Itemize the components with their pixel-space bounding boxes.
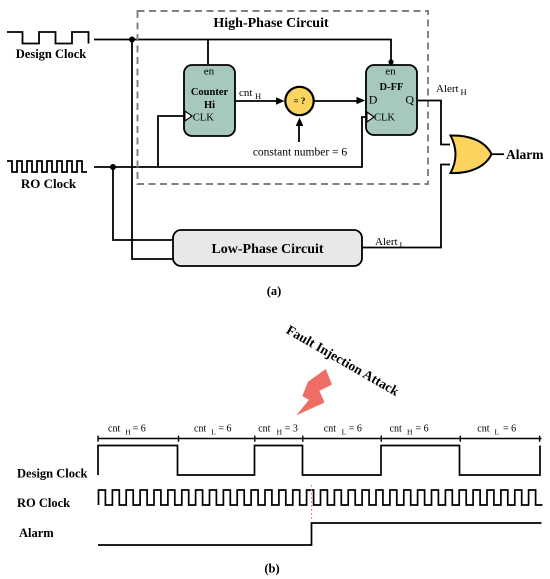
- wire RO clock down to low-phase: [113, 167, 173, 240]
- svg-text:H: H: [255, 91, 261, 101]
- alarm waveform (b): [98, 523, 542, 545]
- svg-text:(b): (b): [264, 562, 279, 576]
- svg-text:Hi: Hi: [204, 100, 215, 111]
- wire cnt_H arrow: [235, 100, 280, 102]
- svg-text:cnt: cnt: [324, 424, 336, 435]
- svg-text:cnt: cnt: [477, 424, 489, 435]
- pin CLK D-FF: [367, 112, 374, 122]
- wire RO clock to D-FF CLK: [94, 117, 366, 167]
- wire counter CLK: [158, 116, 185, 167]
- wire Q to OR gate: [417, 101, 450, 145]
- low-phase circuit box: [173, 230, 362, 266]
- svg-text:L: L: [211, 428, 216, 437]
- RO clock waveform icon: [7, 161, 87, 172]
- svg-text:= 6: = 6: [416, 424, 429, 435]
- svg-text:= 6: = 6: [133, 424, 146, 435]
- svg-text:High-Phase Circuit: High-Phase Circuit: [213, 16, 329, 31]
- lightning bolt: [296, 369, 332, 415]
- counter Hi box: [184, 65, 235, 136]
- terminal dot D-FF en: [388, 59, 393, 64]
- svg-text:H: H: [277, 428, 283, 437]
- design clock waveform (b): [98, 446, 540, 476]
- svg-text:constant number = 6: constant number = 6: [253, 147, 348, 159]
- svg-text:L: L: [400, 240, 405, 250]
- svg-text:H: H: [461, 87, 467, 97]
- arrow constant number: [298, 124, 300, 142]
- svg-text:Alert: Alert: [436, 83, 459, 95]
- svg-text:en: en: [385, 66, 396, 78]
- wire alarm output: [492, 153, 505, 155]
- svg-text:en: en: [204, 66, 215, 78]
- svg-text:= 6: = 6: [349, 424, 362, 435]
- wire comparator to D: [314, 100, 360, 102]
- svg-text:Design Clock: Design Clock: [17, 467, 88, 481]
- svg-text:= 3: = 3: [285, 424, 298, 435]
- wire design clock to D-FF en: [94, 40, 391, 63]
- svg-text:H: H: [125, 428, 131, 437]
- svg-text:L: L: [495, 428, 500, 437]
- svg-text:= 6: = 6: [503, 424, 516, 435]
- comparator circle = ?: [285, 87, 313, 115]
- pin CLK counter: [185, 111, 192, 121]
- RO clock waveform (b): [99, 490, 543, 505]
- ruler line: [98, 438, 542, 440]
- svg-text:CLK: CLK: [193, 113, 214, 124]
- svg-text:L: L: [342, 428, 347, 437]
- svg-text:Alarm: Alarm: [506, 147, 544, 162]
- OR gate: [451, 135, 492, 173]
- svg-text:Alert: Alert: [375, 236, 398, 248]
- svg-text:RO Clock: RO Clock: [21, 176, 77, 191]
- D-FF box: [366, 65, 417, 135]
- wire branch to counter en: [207, 40, 209, 65]
- svg-text:RO Clock: RO Clock: [17, 496, 70, 510]
- node junction design clock: [129, 37, 135, 43]
- svg-text:= 6: = 6: [218, 424, 231, 435]
- svg-text:Low-Phase Circuit: Low-Phase Circuit: [211, 242, 323, 257]
- svg-text:CLK: CLK: [374, 113, 395, 124]
- svg-text:cnt: cnt: [258, 424, 270, 435]
- dashed box high-phase circuit: [138, 11, 429, 184]
- svg-text:D-FF: D-FF: [380, 82, 404, 93]
- svg-text:Alarm: Alarm: [19, 526, 54, 540]
- wire design clock down to low-phase: [132, 40, 173, 260]
- svg-text:H: H: [407, 428, 413, 437]
- ruler ticks: [98, 436, 540, 442]
- design clock waveform icon: [7, 32, 89, 44]
- svg-text:cnt: cnt: [390, 424, 402, 435]
- svg-text:Fault Injection Attack: Fault Injection Attack: [284, 322, 402, 399]
- wire Alert_L to OR gate: [362, 165, 450, 248]
- svg-text:Design Clock: Design Clock: [16, 47, 87, 61]
- svg-text:Q: Q: [405, 93, 414, 107]
- fault injection marker red dashed: [311, 485, 313, 521]
- svg-text:cnt: cnt: [239, 87, 252, 99]
- svg-text:cnt: cnt: [194, 424, 206, 435]
- node junction RO clock: [110, 164, 116, 170]
- svg-text:= ?: = ?: [294, 96, 306, 106]
- svg-text:(a): (a): [267, 284, 282, 298]
- svg-text:D: D: [369, 93, 378, 107]
- svg-text:cnt: cnt: [108, 424, 120, 435]
- svg-text:Counter: Counter: [191, 87, 229, 98]
